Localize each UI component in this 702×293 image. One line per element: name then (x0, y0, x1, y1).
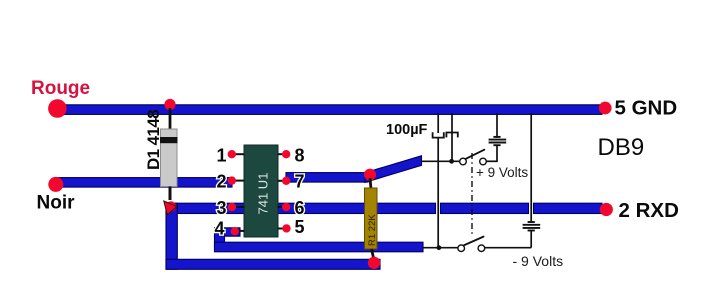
wire: pin 4 stub (215, 228, 240, 236)
svg-text:D1 4148: D1 4148 (144, 110, 163, 170)
wire: pin 4 horizontal run to switch (215, 242, 424, 252)
node: bus junction at diode top (164, 99, 175, 110)
wire: bottom loop horizontal to resistor bottom (166, 259, 380, 269)
capacitor C1 cup plate (433, 132, 444, 137)
svg-text:7: 7 (295, 172, 305, 192)
switch S1 throw circle (480, 158, 487, 165)
svg-text:2 RXD: 2 RXD (619, 199, 679, 222)
node: resistor bottom junction (368, 257, 380, 269)
svg-text:8: 8 (295, 145, 305, 165)
wire: diagonal from pin7 wire up to switch node (365, 156, 422, 183)
node: 2 RXD terminal (600, 203, 613, 216)
op-amp U1 pin 6 lead (278, 206, 287, 208)
op-amp U1 pin 7 lead (278, 180, 287, 182)
svg-text:R1 22K: R1 22K (367, 214, 378, 246)
wire: GND bus (Rouge to 5 GND) (56, 105, 602, 115)
svg-text:5: 5 (295, 217, 305, 237)
op-amp U1 pin 8 lead (278, 153, 287, 155)
wire: Noir to pin 2 (56, 178, 232, 188)
node: resistor top junction (364, 169, 376, 181)
switch S1 right wire (487, 160, 498, 162)
battery B1 plate 1 (489, 139, 507, 141)
diode D1 cathode band (160, 137, 178, 143)
switch S2 right wire (485, 247, 531, 249)
svg-text:741 U1: 741 U1 (256, 173, 271, 215)
switch S2 lever (464, 237, 484, 246)
svg-text:1: 1 (216, 145, 226, 165)
capacitor C1 line from bus (437, 113, 439, 133)
diode D1 arrow tip over junction (164, 201, 177, 215)
op-amp U1 pin 4 lead (237, 230, 245, 232)
wire: pin 7 horizontal (286, 173, 368, 183)
wire: vertical from diode junction down to bottom loop (166, 203, 177, 269)
svg-text:6: 6 (295, 198, 305, 218)
switch S2 junction dot (437, 245, 442, 250)
battery B2 top tick (528, 221, 535, 223)
battery B2 plate 1 (523, 224, 541, 226)
battery B1 lead down to switch S1 (496, 145, 498, 161)
battery B2 lead down to switch S2 (530, 231, 532, 248)
op-amp U1 body (244, 145, 278, 237)
capacitor C2 line from bus (451, 113, 453, 161)
node: pin 4 dot (231, 227, 239, 235)
resistor R1 top lead (370, 178, 371, 189)
node: Rouge terminal (48, 99, 67, 118)
battery B2 (-9V) lead from bus (530, 113, 532, 222)
svg-text:Rouge: Rouge (31, 78, 90, 99)
svg-text:Noir: Noir (37, 193, 76, 214)
svg-text:4: 4 (214, 219, 224, 239)
diode D1 top lead (169, 108, 172, 130)
op-amp U1 pin 5 lead (278, 228, 287, 230)
switch S2 throw circle (478, 245, 485, 252)
resistor R1 body (365, 188, 378, 249)
svg-text:100µF: 100µF (386, 122, 428, 138)
switch S1 left wire (422, 160, 460, 162)
switch S1 pole circle (460, 158, 467, 165)
node: pin 2 dot (228, 176, 236, 184)
node: 5 GND terminal (599, 102, 612, 115)
node: diode junction dot (166, 201, 176, 211)
diode D1 bottom lead (169, 187, 172, 201)
wire: RXD net segment 1 (diode junction to first crossing) (166, 203, 436, 213)
node: pin 6 dot (282, 203, 290, 211)
switch S2 left wire (423, 247, 458, 249)
op-amp U1 pin 3 lead (235, 206, 245, 208)
node: pin 3 dot (228, 203, 236, 211)
node: Noir terminal (48, 177, 63, 192)
battery B2 plate 2 (523, 227, 541, 229)
node: pin 5 dot (282, 224, 290, 232)
battery B1 (+9V) lead from bus (496, 113, 498, 138)
switch gang link (dash-dot) (471, 153, 473, 236)
battery B1 bottom tick (493, 144, 500, 146)
op-amp U1 pin 1 lead (235, 153, 245, 155)
svg-text:DB9: DB9 (598, 134, 645, 161)
wire: RXD net segment 3 (to 2 RXD pin) (534, 203, 603, 213)
svg-text:5 GND: 5 GND (615, 97, 678, 120)
battery B1 plate 2 (489, 142, 507, 144)
svg-text:2: 2 (216, 172, 226, 192)
wire: pin 4 corner (215, 228, 225, 251)
capacitor C2 bar plate (446, 133, 457, 138)
op-amp U1 pin 2 lead (235, 180, 245, 182)
diode D1 body (161, 129, 178, 187)
node: pin 8 dot (282, 150, 290, 158)
node: pin 7 dot (282, 177, 290, 185)
resistor R1 bottom lead (372, 249, 374, 258)
capacitor C1 lower line down to bottom switch (437, 139, 439, 248)
switch S2 pole circle (458, 245, 465, 252)
svg-text:- 9 Volts: - 9 Volts (513, 253, 564, 269)
node: pin 1 dot (228, 150, 236, 158)
switch S1 junction dot (449, 159, 454, 164)
battery B1 top tick (493, 136, 500, 138)
svg-text:3: 3 (216, 198, 226, 218)
svg-text:+ 9 Volts: + 9 Volts (476, 165, 528, 180)
battery B2 bottom tick (528, 230, 535, 232)
wire: RXD net segment 2 (between crossings) (441, 203, 529, 213)
switch S1 lever (466, 150, 485, 159)
